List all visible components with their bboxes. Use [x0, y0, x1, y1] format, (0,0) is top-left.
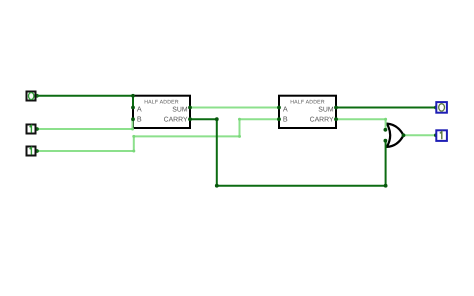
- pin SUM of U1: [188, 106, 192, 110]
- node at OUT2 input: [434, 133, 438, 137]
- svg-text:CARRY: CARRY: [310, 117, 334, 124]
- svg-text:A: A: [137, 104, 142, 113]
- svg-text:HALF ADDER: HALF ADDER: [144, 99, 179, 105]
- pin SUM of U2: [334, 106, 338, 110]
- pin input1 of G1: [384, 128, 388, 132]
- input IN3 value 1: [27, 147, 36, 156]
- node corner net Cin mid-left: [132, 135, 135, 138]
- wire net B (value 1): [37, 119, 133, 129]
- svg-text:SUM: SUM: [318, 106, 334, 113]
- node at IN1 output: [35, 94, 39, 98]
- wire net CARRY1 (value 0): [190, 119, 386, 186]
- svg-text:B: B: [137, 115, 142, 124]
- pin CARRY of U1: [188, 117, 192, 121]
- wire net Cin (value 1): [37, 119, 280, 151]
- pin A of U1: [131, 106, 135, 110]
- half adder U1: [133, 96, 190, 128]
- svg-text:SUM: SUM: [172, 106, 188, 113]
- pin input2 of G1: [384, 139, 388, 143]
- node corner CARRY1 bottom-right: [384, 184, 388, 188]
- node corner net Cin lower: [132, 150, 135, 153]
- node corner CARRY1 at x217: [215, 117, 219, 121]
- node corner CARRY1 bottom-left: [215, 184, 219, 188]
- half adder U2: [279, 96, 336, 128]
- node at IN3 output: [35, 149, 39, 153]
- pin A of U2: [277, 106, 281, 110]
- wire net SUM2 (value 0): [336, 107, 435, 109]
- output OUT1 value 0 (SUM): [436, 102, 447, 113]
- pin output of G1: [402, 133, 406, 137]
- node corner net Cin upper: [238, 118, 241, 121]
- node junction corner net A at U1 top-left: [131, 94, 135, 98]
- input IN2 value 1: [27, 125, 36, 134]
- output OUT2 value 1 (CARRY): [436, 130, 447, 141]
- or gate G1: [387, 124, 404, 147]
- svg-text:CARRY: CARRY: [164, 117, 188, 124]
- wire net CARRY2 (value 1): [336, 119, 386, 130]
- wire net SUM1 (value 1): [190, 107, 279, 109]
- wire net COUT (value 1): [404, 134, 436, 136]
- input IN1 value 0: [27, 92, 36, 101]
- pin B of U2: [277, 117, 281, 121]
- pin B of U1: [131, 117, 135, 121]
- pin CARRY of U2: [334, 117, 338, 121]
- node at OUT1 input: [434, 106, 438, 110]
- node corner net Cin mid-right: [238, 135, 241, 138]
- node corner net B: [131, 128, 134, 131]
- svg-text:B: B: [283, 115, 288, 124]
- svg-text:A: A: [283, 104, 288, 113]
- svg-text:HALF ADDER: HALF ADDER: [290, 99, 325, 105]
- wire net A (value 0): [37, 96, 134, 108]
- node corner net CARRY2: [384, 118, 387, 121]
- node at IN2 output: [35, 127, 39, 131]
